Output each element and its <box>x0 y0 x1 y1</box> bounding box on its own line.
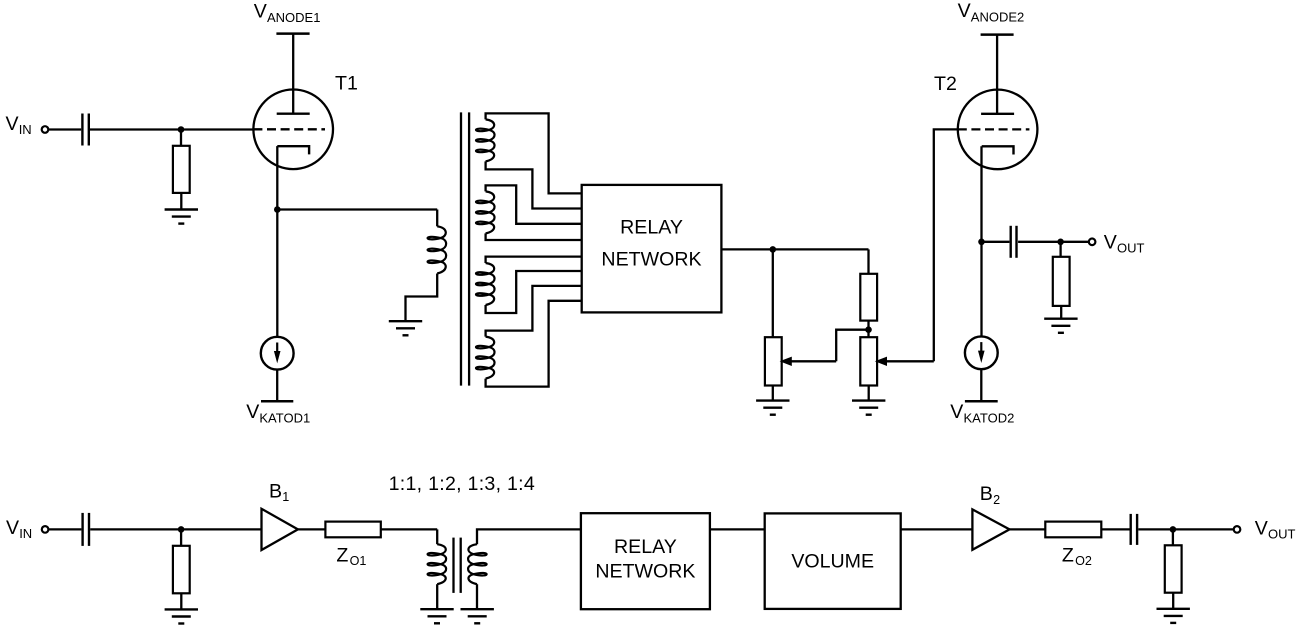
buffer amplifier B2 <box>972 509 1009 549</box>
svg-text:NETWORK: NETWORK <box>601 248 701 270</box>
potentiometer P2 wiper arrow <box>884 360 934 362</box>
wire primary to ground <box>436 584 438 609</box>
ground (R1) <box>165 208 198 210</box>
wire I1 to VKATOD1 <box>276 369 278 401</box>
svg-text:ANODE1: ANODE1 <box>267 10 320 25</box>
wire node to potentiometer P1 <box>772 249 774 337</box>
svg-text:NETWORK: NETWORK <box>595 560 695 582</box>
ground (bottom secondary) <box>461 608 494 610</box>
svg-text:V: V <box>246 401 259 423</box>
wire S1 bottom lead <box>486 161 582 208</box>
wire ZO2 to C4 <box>1101 528 1129 530</box>
wire VANODE2 to T2 anode <box>996 35 998 114</box>
input terminal (bottom) <box>42 526 49 533</box>
svg-text:O2: O2 <box>1075 554 1092 568</box>
svg-text:B: B <box>980 483 993 505</box>
wire B2 to ZO2 <box>1010 528 1046 530</box>
svg-text:1: 1 <box>282 490 289 504</box>
wire S1 top lead <box>486 113 582 193</box>
capacitor C4 (output coupling, bottom) <box>1129 514 1131 545</box>
wire S3 bottom lead <box>486 271 582 313</box>
wire T1 cathode down <box>276 146 278 209</box>
wire primary top (bottom transformer) <box>436 529 438 544</box>
svg-text:V: V <box>254 1 267 23</box>
svg-text:RELAY: RELAY <box>620 217 683 239</box>
potentiometer P2 body <box>860 337 877 385</box>
svg-text:V: V <box>1104 231 1117 253</box>
svg-text:Z: Z <box>336 544 348 566</box>
block VOLUME <box>765 513 901 609</box>
wire node to R5 <box>1172 529 1174 545</box>
node output (bottom) <box>1170 526 1177 533</box>
capacitor C3 (input coupling, bottom) <box>81 513 83 546</box>
inductor primary winding (top transformer) <box>428 226 447 273</box>
wire node to R1 <box>180 130 182 146</box>
block RELAY NETWORK (bottom) <box>581 513 710 609</box>
wire P2 to ground <box>868 386 870 401</box>
node T2 cathode <box>978 239 985 246</box>
ground (R3) <box>1044 318 1077 320</box>
wire ZO1 to transformer <box>381 528 437 530</box>
capacitor C1 (input coupling, top) <box>81 114 83 146</box>
wire primary top lead <box>436 210 438 227</box>
VANODE1 terminal bar <box>276 32 309 35</box>
svg-text:IN: IN <box>19 526 32 541</box>
ground (primary) <box>389 320 422 322</box>
triode T1 grid (dashed) <box>253 128 325 130</box>
potentiometer P1 body <box>765 337 782 385</box>
wire T2 cathode down <box>980 146 982 242</box>
triode T2 anode plate <box>981 113 1014 115</box>
wire B1 to ZO1 <box>298 528 326 530</box>
wire node to R3 <box>1059 242 1061 257</box>
svg-text:B: B <box>269 480 282 502</box>
svg-text:ANODE2: ANODE2 <box>971 9 1024 24</box>
wire P1 wiper to node B <box>836 330 868 362</box>
wire secondary to ground <box>476 584 478 609</box>
svg-text:IN: IN <box>19 122 32 137</box>
primary winding (bottom transformer) <box>428 544 447 584</box>
current source I1 <box>261 337 294 370</box>
wire T2 grid to P2 wiper <box>934 129 958 361</box>
wire input to C3 <box>48 528 81 530</box>
resistor R5 (output load, bottom) <box>1165 545 1182 592</box>
VKATOD1 terminal bar <box>261 400 293 403</box>
triode T2 envelope <box>958 90 1038 170</box>
secondary winding (bottom transformer) <box>468 544 487 584</box>
triode T2 cathode <box>982 146 1014 154</box>
wire volume to B2 <box>901 528 973 530</box>
triode T2 grid (dashed) <box>958 128 1030 130</box>
svg-text:V: V <box>6 113 19 135</box>
svg-text:1:1, 1:2, 1:3, 1:4: 1:1, 1:2, 1:3, 1:4 <box>389 473 535 495</box>
resistor R4 (input load, bottom) <box>173 546 190 594</box>
resistor R3 (output load, top) <box>1053 257 1070 306</box>
svg-text:O1: O1 <box>350 554 367 568</box>
impedance ZO2 box <box>1045 522 1101 538</box>
resistor R2 <box>860 274 877 321</box>
block RELAY NETWORK (top) <box>582 185 722 313</box>
svg-text:KATOD1: KATOD1 <box>259 410 310 425</box>
VANODE2 terminal bar <box>981 33 1014 36</box>
wire C4 to output terminal <box>1138 528 1233 530</box>
input terminal (top) <box>42 126 49 133</box>
wire P1 to ground <box>772 386 774 401</box>
secondary coil S1 <box>476 119 495 161</box>
impedance ZO1 box <box>325 522 380 538</box>
wire S3 top lead <box>486 257 582 263</box>
svg-text:V: V <box>950 401 963 423</box>
svg-text:V: V <box>6 517 19 539</box>
svg-text:V: V <box>1255 517 1268 539</box>
wire S4 bottom lead <box>486 301 582 387</box>
wire R5 to ground <box>1172 593 1174 609</box>
node output (top) <box>1057 239 1064 246</box>
wire VANODE1 to T1 anode <box>292 34 294 114</box>
transformer core (top) <box>460 112 462 385</box>
svg-text:2: 2 <box>993 493 1000 507</box>
wire cathode to current source I2 <box>980 242 982 337</box>
svg-text:VOLUME: VOLUME <box>791 551 874 573</box>
wire S2 bottom lead <box>486 233 582 240</box>
svg-text:OUT: OUT <box>1117 241 1145 256</box>
wire C1 to T1 grid <box>90 128 254 130</box>
node grid T1 <box>178 126 185 133</box>
secondary coil S2 <box>476 191 495 233</box>
current source I2 <box>965 336 998 369</box>
wire R1 to ground <box>180 193 182 210</box>
wire R3 to ground <box>1060 306 1062 319</box>
secondary coil S4 <box>476 337 495 379</box>
wire cathode to C2 <box>982 241 1010 243</box>
svg-text:V: V <box>958 0 971 22</box>
wire C3 to B1 <box>90 528 261 530</box>
wire secondary top to relay box <box>477 529 581 544</box>
node T1 cathode <box>274 206 281 213</box>
wire I2 to VKATOD2 <box>980 369 982 402</box>
ground (R5) <box>1157 608 1190 610</box>
transformer core (bottom) <box>452 538 454 593</box>
triode T1 envelope <box>253 90 333 170</box>
VKATOD2 terminal bar <box>965 400 998 403</box>
ground (P1) <box>756 399 789 401</box>
wire S2 top lead <box>486 185 582 223</box>
wire relay to volume <box>710 528 765 530</box>
svg-text:KATOD2: KATOD2 <box>964 410 1015 425</box>
svg-text:Z: Z <box>1062 544 1074 566</box>
wire primary bottom to ground <box>406 274 438 322</box>
potentiometer P1 wiper arrow <box>789 360 837 362</box>
ground (R4) <box>165 608 198 610</box>
node relay output <box>770 246 777 253</box>
wire relay output <box>721 248 868 250</box>
wire input to C1 <box>48 128 81 130</box>
svg-text:OUT: OUT <box>1268 527 1296 542</box>
svg-text:RELAY: RELAY <box>614 536 677 558</box>
node input (bottom) <box>178 526 185 533</box>
svg-text:T2: T2 <box>934 73 957 95</box>
wire S4 top lead <box>486 286 582 337</box>
wire cathode node to transformer primary <box>277 208 437 210</box>
ground (P2) <box>852 399 885 401</box>
wire node to R4 <box>180 529 182 545</box>
triode T1 anode plate <box>277 112 310 114</box>
wire to resistor R2 <box>867 249 869 273</box>
node B <box>865 326 872 333</box>
ground (bottom primary) <box>420 608 453 610</box>
wire C2 to output terminal <box>1018 241 1089 243</box>
buffer amplifier B1 <box>262 509 298 550</box>
svg-text:T1: T1 <box>335 72 358 94</box>
triode T1 cathode <box>277 146 309 154</box>
wire R4 to ground <box>180 593 182 609</box>
output terminal (bottom) <box>1234 526 1241 533</box>
wire T1 cathode node to current source I1 <box>276 210 278 338</box>
output terminal (top) <box>1089 239 1096 246</box>
wire R2 to node B <box>867 321 869 338</box>
resistor R1 (grid leak, top) <box>173 146 190 193</box>
capacitor C2 (output coupling, top) <box>1010 226 1012 258</box>
secondary coil S3 <box>476 263 495 305</box>
